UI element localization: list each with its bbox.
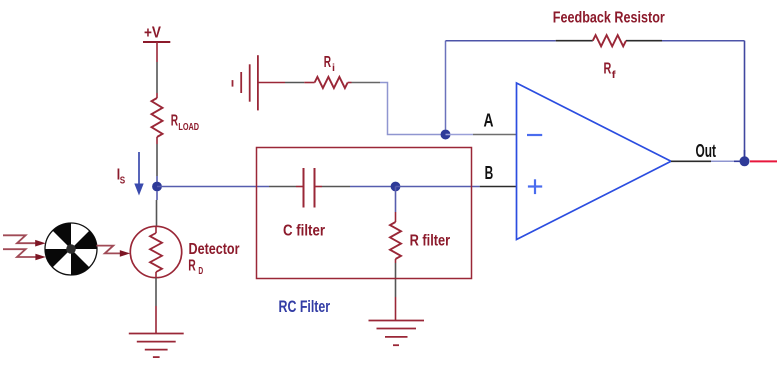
feedback wire down to output node <box>744 41 746 157</box>
wire node A to op-amp - input <box>446 111 517 135</box>
svg-text:B: B <box>485 163 494 183</box>
resistor R_i <box>315 54 348 88</box>
resistor R_LOAD <box>152 98 200 137</box>
svg-text:Detector: Detector <box>189 241 240 258</box>
ground below detector <box>129 334 184 358</box>
+V supply symbol <box>143 25 170 43</box>
svg-text:R filter: R filter <box>410 233 451 250</box>
feedback wire up from node A <box>445 41 447 130</box>
svg-text:A: A <box>484 111 494 131</box>
svg-text:i: i <box>332 63 335 74</box>
svg-text:RC Filter: RC Filter <box>279 298 331 316</box>
wire out to right edge <box>750 160 777 162</box>
node junction at detector/load <box>152 182 162 192</box>
capacitor C filter <box>283 168 325 240</box>
feedback resistor R_f <box>553 10 665 81</box>
svg-text:Feedback Resistor: Feedback Resistor <box>553 10 665 27</box>
wire node to C filter <box>157 186 303 188</box>
wire node Is down to detector <box>156 191 159 226</box>
svg-text:R: R <box>171 113 179 130</box>
ground below R filter <box>369 321 425 346</box>
svg-text:LOAD: LOAD <box>178 122 199 133</box>
svg-text:C filter: C filter <box>283 223 325 240</box>
svg-text:R: R <box>324 54 332 71</box>
light ray arrow 1 <box>3 235 46 246</box>
resistor R filter <box>390 187 450 264</box>
wire C filter to node B <box>316 186 396 188</box>
ground at R_i input (rotated) <box>233 55 258 110</box>
node A junction <box>441 130 451 140</box>
op-amp U1 <box>517 83 672 240</box>
detector R_D <box>130 226 239 277</box>
node Out junction <box>740 156 750 166</box>
light ray arrow 2 <box>3 249 46 260</box>
wire ground to R_i <box>258 82 315 84</box>
svg-text:S: S <box>120 176 126 187</box>
wire +V to R_LOAD <box>156 42 158 98</box>
svg-text:D: D <box>198 266 203 277</box>
svg-text:Out: Out <box>696 141 717 161</box>
output wire <box>671 141 745 161</box>
svg-text:R: R <box>604 61 612 78</box>
wire R filter to ground <box>395 263 397 320</box>
node B junction <box>391 182 401 192</box>
svg-text:R: R <box>188 258 196 275</box>
light ray arrow wheel to detector <box>96 246 130 257</box>
wire node B to op-amp + input <box>396 163 517 187</box>
chopper wheel <box>45 223 97 275</box>
feedback top wire <box>446 40 745 42</box>
RC filter box <box>257 148 472 279</box>
current arrow I_S <box>117 152 144 196</box>
wire R_i to node A <box>348 83 441 135</box>
wire R_LOAD to node Is <box>156 137 158 184</box>
wire detector to ground <box>155 278 157 334</box>
svg-text:+V: +V <box>144 25 161 42</box>
